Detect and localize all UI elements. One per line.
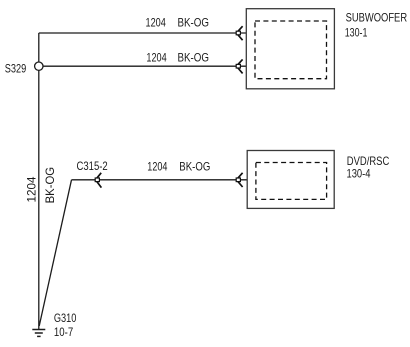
svg-text:S329: S329 [5,62,27,76]
dashed inner box DVD/RSC [256,163,327,200]
svg-text:BK-OG: BK-OG [43,167,57,204]
connector arrow C315-2 inline [95,173,101,188]
component box DVD/RSC 130-4 [247,151,334,209]
svg-text:BK-OG: BK-OG [179,160,210,174]
svg-text:10-7: 10-7 [54,325,74,339]
svg-text:1204: 1204 [146,50,167,64]
wire mid horizontal to DVD/RSC pin [72,179,248,181]
svg-text:130-4: 130-4 [347,167,371,181]
svg-text:G310: G310 [54,311,77,325]
svg-text:C315-2: C315-2 [77,159,108,173]
svg-text:BK-OG: BK-OG [178,16,210,30]
wire top horizontal to subwoofer pin 1 [39,32,247,34]
connector arrow pin at subwoofer bottom [236,59,242,73]
svg-text:1204: 1204 [146,16,167,30]
svg-text:1204: 1204 [147,160,167,174]
ground G310 [32,330,45,337]
svg-text:BK-OG: BK-OG [178,50,210,64]
svg-text:1204: 1204 [25,176,39,202]
connector arrow pin at subwoofer top [236,26,242,40]
wire diagonal from C315-2 corner to ground [39,180,71,326]
wire second horizontal to subwoofer pin 2 [43,65,246,67]
component box SUBWOOFER 130-1 [246,9,334,89]
connector arrow pin at DVD/RSC [236,173,242,187]
splice S329 [35,62,43,70]
dashed inner box subwoofer [255,21,327,79]
svg-text:SUBWOOFER: SUBWOOFER [346,10,408,24]
wire vertical long from splice to ground [38,70,40,329]
wire vertical stub from splice S329 up [38,33,40,62]
svg-text:130-1: 130-1 [345,25,368,39]
